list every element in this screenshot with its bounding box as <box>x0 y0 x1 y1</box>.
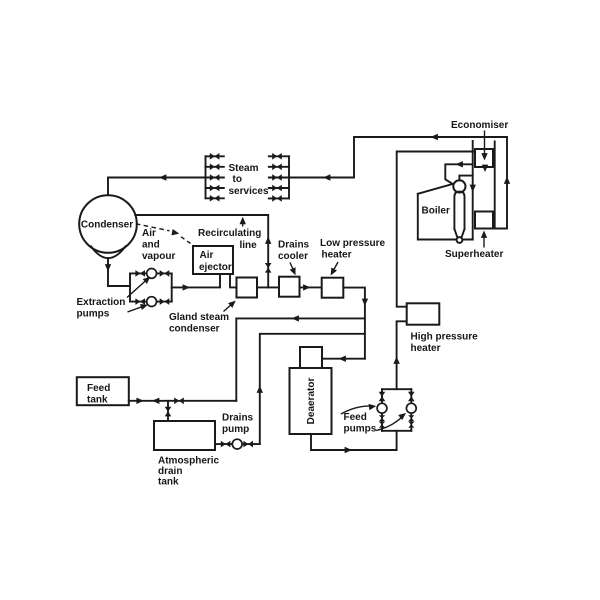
svg-text:High pressure: High pressure <box>411 332 479 343</box>
valve after drains pump <box>243 441 253 448</box>
valve below left feed pump (lower) <box>379 422 385 428</box>
valve above left feed pump <box>379 392 386 402</box>
arrow left on steam line top run <box>431 134 438 140</box>
wire: air ejector outlet to gland steam condenser <box>230 274 237 287</box>
wire: recirculating line <box>135 215 268 287</box>
arrow left on drains return line <box>292 315 299 321</box>
label: High pressure heater <box>411 332 479 355</box>
svg-text:Feed: Feed <box>87 383 110 394</box>
drains pump <box>232 439 242 449</box>
svg-text:Drains: Drains <box>222 413 254 424</box>
svg-text:pump: pump <box>222 424 249 435</box>
arrow down below economiser <box>482 165 488 172</box>
valve: right manifold row 2 <box>272 164 282 171</box>
svg-text:Atmospheric: Atmospheric <box>158 456 220 467</box>
wire: gland steam condenser outlet <box>257 286 279 288</box>
label: Recirculating line <box>198 217 261 251</box>
valve above right feed pump <box>408 392 415 402</box>
boiler uptake left wall / superheater steam lead <box>472 141 474 240</box>
arrow up on feed pump discharge <box>393 357 399 364</box>
valve: right manifold row 4 <box>272 185 282 192</box>
wire: heater drains return line to feed tank <box>236 318 365 400</box>
svg-text:Economiser: Economiser <box>451 120 508 131</box>
valve on top extraction branch left <box>135 270 145 277</box>
extraction pumps manifold <box>130 273 172 301</box>
gland steam condenser <box>237 278 258 298</box>
label: Drains cooler with leader arrow <box>278 240 310 277</box>
steam drum <box>453 180 465 192</box>
valve on bottom extraction branch left <box>135 298 145 305</box>
arrow left on deaerator inlet <box>339 356 346 362</box>
valve on bottom extraction branch right <box>160 298 170 305</box>
wire: HP heater outlet riser to economiser <box>397 152 474 307</box>
arrow left on steam services line right <box>323 174 330 180</box>
feed pumps manifold <box>382 389 411 431</box>
wire: deaerator inlet line <box>322 358 365 360</box>
valve on recirculating line <box>265 263 272 273</box>
label: Superheater with leader arrow <box>445 231 503 261</box>
valve on feed tank line <box>174 398 184 405</box>
arrow down on steam lead to superheater <box>470 185 476 192</box>
svg-text:pumps: pumps <box>344 424 377 435</box>
svg-text:Boiler: Boiler <box>422 206 450 217</box>
boiler uptake right wall <box>494 142 496 229</box>
wire: condensate main to air ejector <box>172 274 220 287</box>
svg-text:Deaerator: Deaerator <box>306 378 317 425</box>
valve: right manifold row 3 <box>272 174 282 181</box>
svg-text:ejector: ejector <box>199 262 232 273</box>
arrow right on condensate main <box>183 284 190 290</box>
svg-text:Air: Air <box>200 250 214 261</box>
wire: condensate drop from condenser hot well <box>108 258 130 286</box>
superheater <box>475 212 493 229</box>
svg-text:Gland steam: Gland steam <box>169 312 229 323</box>
wire: drains pump discharge line <box>260 334 365 444</box>
valve below right feed pump (upper) <box>408 415 414 421</box>
label: Extraction pumps with leader arrows <box>77 274 153 319</box>
valve: left manifold row 4 <box>210 185 220 192</box>
air ejector U1 <box>193 246 233 274</box>
steam services left manifold <box>206 156 224 198</box>
wire: main steam line from superheater to condenser <box>108 137 507 229</box>
label: Air and vapour <box>142 228 175 262</box>
wire: drum steam offtake <box>459 176 472 181</box>
svg-text:Superheater: Superheater <box>445 249 503 260</box>
svg-text:services: services <box>229 186 269 197</box>
wire: LP heater outlet down to deaerator <box>343 288 365 359</box>
arrow down on condensate drop <box>105 264 111 271</box>
svg-text:Low pressure: Low pressure <box>320 238 385 249</box>
label: Drains pump <box>222 413 254 436</box>
svg-text:Extraction: Extraction <box>77 297 126 308</box>
arrow up on superheater outlet riser <box>504 177 510 184</box>
svg-text:Air: Air <box>142 228 156 239</box>
wire: drains pump suction/discharge line <box>215 443 260 445</box>
wire: deaerator outlet to feed pumps suction <box>311 431 397 450</box>
label: Gland steam condenser with leader arrow <box>169 298 238 334</box>
svg-text:drain: drain <box>158 466 182 477</box>
svg-text:line: line <box>240 240 258 251</box>
svg-text:Steam: Steam <box>229 163 259 174</box>
deaerator vent dome <box>300 347 322 368</box>
valve: right manifold row 5 <box>272 195 282 202</box>
feed pump right <box>406 403 416 413</box>
valve: left manifold row 5 <box>210 195 220 202</box>
steam services right manifold <box>269 156 289 198</box>
svg-text:tank: tank <box>158 477 179 488</box>
wire: drop to atmospheric drain tank <box>167 401 169 421</box>
boiler casing <box>418 184 473 240</box>
boiler tube bank and water drum <box>454 192 464 243</box>
svg-text:Recirculating: Recirculating <box>198 228 261 239</box>
arrow up on drains pump riser <box>257 386 263 393</box>
valve: left manifold row 3 <box>210 174 220 181</box>
label: Economiser with leader arrow <box>451 120 508 161</box>
deaerator <box>290 368 332 434</box>
wire: feed tank line <box>129 400 237 402</box>
svg-text:Feed: Feed <box>344 412 367 423</box>
low pressure heater <box>322 278 344 298</box>
dashed leader: air and vapour from condenser to air ejector <box>136 224 194 246</box>
arrow left on steam services line left <box>159 174 166 180</box>
svg-text:Drains: Drains <box>278 240 310 251</box>
condenser <box>79 195 137 258</box>
arrow left on feed tank line <box>152 398 159 404</box>
svg-text:Condenser: Condenser <box>81 220 133 231</box>
valve before drains pump <box>221 441 231 448</box>
extraction pump bottom <box>147 297 157 307</box>
svg-text:cooler: cooler <box>278 251 308 262</box>
valve below left feed pump (upper) <box>379 415 385 421</box>
wire: feed pump discharge riser to HP heater <box>397 321 407 389</box>
economiser <box>475 149 493 167</box>
svg-text:vapour: vapour <box>142 251 175 262</box>
arrow right on feed pump suction line <box>345 447 352 453</box>
valve: right manifold row 1 <box>272 153 282 160</box>
label: Atmospheric drain tank <box>158 456 220 488</box>
valve below right feed pump (lower) <box>408 422 414 428</box>
svg-text:heater: heater <box>411 343 441 354</box>
wire: drains cooler outlet <box>300 286 322 288</box>
svg-text:and: and <box>142 240 160 251</box>
extraction pump top <box>147 269 157 279</box>
label: Steam to services <box>229 163 269 197</box>
drains cooler <box>279 277 300 297</box>
feed tank <box>77 377 129 405</box>
label: Feed pumps with leader arrows <box>341 403 408 435</box>
atmospheric drain tank <box>154 421 215 450</box>
svg-text:pumps: pumps <box>77 309 110 320</box>
arrow up on recirculating line <box>265 237 271 244</box>
arrow left on economiser outlet <box>456 161 463 167</box>
svg-text:to: to <box>233 174 242 185</box>
wire: economiser outlet to steam drum <box>445 164 472 184</box>
valve on top extraction branch right <box>160 270 170 277</box>
feed pump left <box>377 403 387 413</box>
valve on drain tank drop <box>165 407 172 417</box>
arrow right after drains cooler <box>303 284 310 290</box>
valve: left manifold row 1 <box>210 153 220 160</box>
arrow down on LP heater outlet drop <box>362 299 368 306</box>
arrow right on feed tank line <box>136 398 143 404</box>
valve: left manifold row 2 <box>210 164 220 171</box>
high pressure heater <box>407 303 440 324</box>
label: Low pressure heater with leader arrow <box>320 238 385 277</box>
svg-text:condenser: condenser <box>169 324 220 335</box>
svg-text:tank: tank <box>87 395 108 406</box>
svg-text:heater: heater <box>322 250 352 261</box>
